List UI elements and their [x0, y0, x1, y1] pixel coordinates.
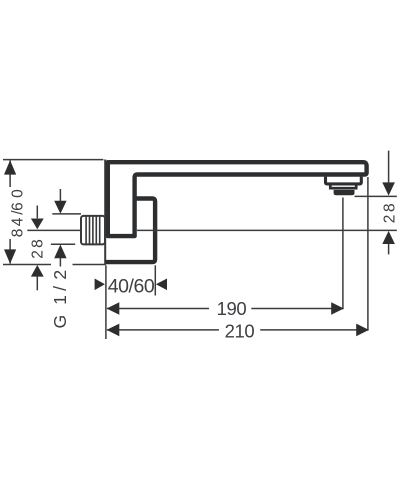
- dim 28 right arrow down: [382, 182, 395, 195]
- dim 28 right arrow up: [382, 231, 395, 244]
- label 28 right: [381, 203, 398, 223]
- aerator step 2: [330, 185, 356, 188]
- dim 40/60 extension left: [105, 265, 107, 339]
- dim 190 line left: [107, 308, 209, 310]
- dim 84/60 line lower: [9, 239, 11, 264]
- spout tube outline: [108, 162, 367, 236]
- svg-text:8: 8: [30, 239, 47, 248]
- svg-text:2: 2: [50, 270, 70, 280]
- wall plate: [106, 199, 155, 263]
- centerline left: [27, 229, 80, 231]
- dim 84/60 arrow up: [4, 160, 16, 174]
- extension line bottom right part (plate bottom): [73, 264, 106, 266]
- svg-text:G: G: [50, 315, 70, 329]
- label G 1/2: [50, 270, 70, 329]
- dim 28 left stem top: [36, 206, 38, 219]
- label 84/60: [10, 189, 27, 237]
- dim 210 arrow right: [356, 324, 369, 337]
- dim 190 arrow right: [331, 302, 344, 315]
- dim 28 left arrow up: [31, 265, 44, 277]
- dim G1/2 arrow down: [54, 201, 66, 214]
- label 28 left: [30, 239, 47, 258]
- svg-text:190: 190: [217, 298, 247, 319]
- dim 210 extension right: [367, 177, 369, 331]
- svg-text:2: 2: [30, 250, 47, 259]
- dim 210 arrow left: [107, 324, 120, 337]
- svg-text:0: 0: [10, 189, 27, 198]
- dim G1/2 stem top: [59, 189, 61, 201]
- svg-text:1: 1: [50, 295, 70, 305]
- svg-text:2: 2: [381, 215, 398, 224]
- svg-text:6: 6: [10, 202, 27, 211]
- dim 190 extension right: [342, 198, 344, 310]
- dim 190 arrow left: [107, 302, 120, 315]
- svg-text:40/60: 40/60: [108, 275, 155, 297]
- extension line aerator bottom: [355, 195, 397, 197]
- svg-text:/: /: [50, 286, 70, 291]
- threaded fitting G1/2: [81, 216, 105, 245]
- dim 84/60 line upper: [9, 160, 11, 187]
- thread hatch lines: [86, 217, 100, 244]
- dim G1/2 arrow up: [54, 245, 66, 259]
- aerator step 1: [326, 177, 362, 184]
- aerator ring: [334, 190, 355, 195]
- extension line fitting bottom: [51, 243, 75, 245]
- dim 190 line right: [251, 308, 342, 310]
- extension line fitting top: [52, 213, 81, 215]
- wall line: [104, 160, 106, 265]
- dim 40/60 arrow left: [156, 279, 167, 291]
- dim 40/60 extension right: [154, 265, 156, 295]
- extension line top (spout top edge): [3, 159, 103, 161]
- svg-text:8: 8: [381, 203, 398, 212]
- extension line bottom left part (plate bottom): [3, 264, 51, 266]
- dim 28 left stem bottom: [36, 276, 38, 290]
- dim G1/2 stem bottom: [59, 258, 61, 267]
- dim 84/60 arrow down: [4, 249, 16, 263]
- svg-text:210: 210: [225, 320, 255, 341]
- dim 210 line left: [107, 329, 219, 331]
- svg-text:4: 4: [10, 217, 27, 226]
- dim 40/60 arrow right: [95, 279, 105, 291]
- centerline right: [137, 229, 397, 231]
- dim 28 right stem top: [388, 151, 390, 183]
- dim 28 left arrow down: [31, 219, 44, 230]
- dim 210 line right: [260, 329, 368, 331]
- dim 28 right stem bottom: [388, 244, 390, 254]
- svg-text:8: 8: [10, 229, 27, 238]
